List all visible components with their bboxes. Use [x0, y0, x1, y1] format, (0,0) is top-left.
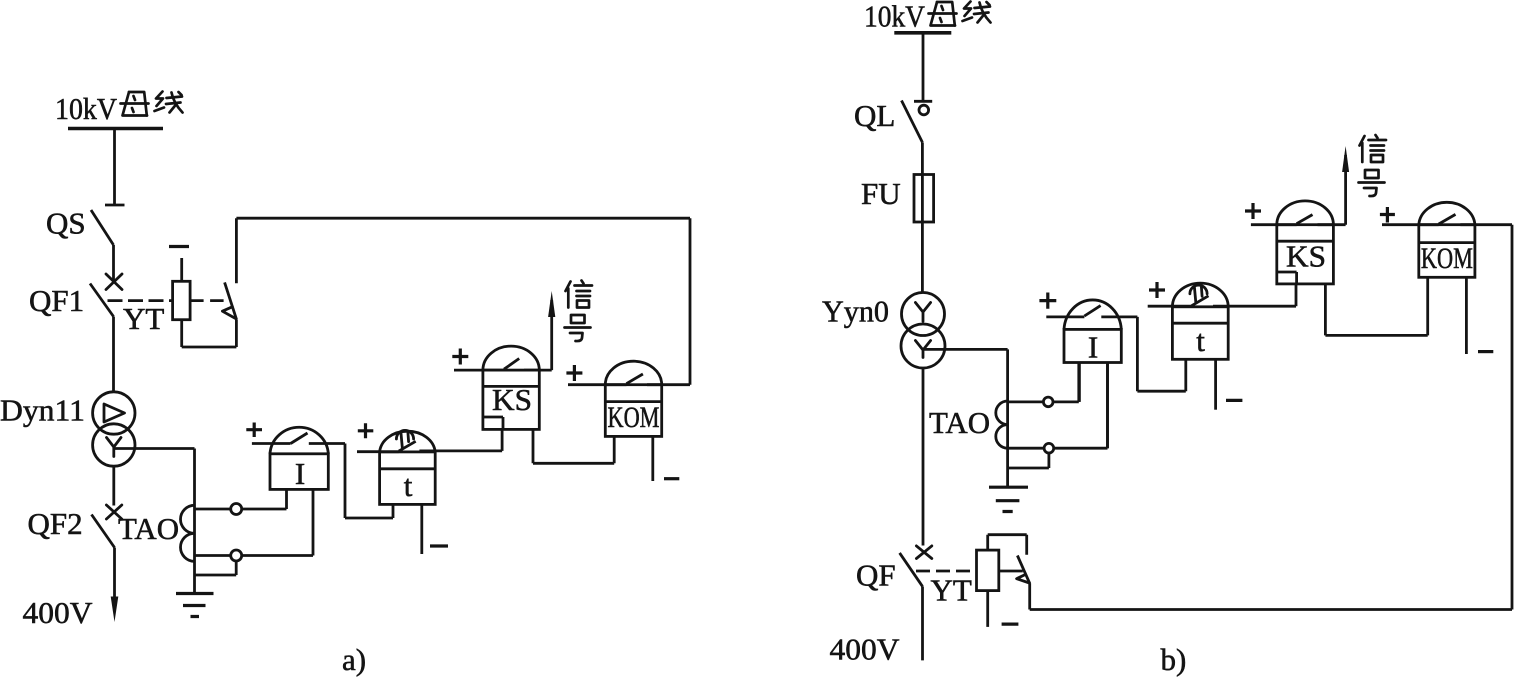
relay KS (a) notch — [483, 417, 503, 429]
relay t (b) divider — [1172, 322, 1228, 325]
svg-text:a): a) — [342, 642, 366, 677]
minus relay KOM (a) — [664, 477, 679, 480]
wire QS to QF1 — [112, 245, 115, 282]
relay I (b) box — [1064, 329, 1121, 362]
svg-text:t: t — [1196, 323, 1205, 358]
wire relay t to KS coil (b) — [1295, 284, 1298, 306]
wire TAO upper tap (b) — [1008, 400, 1044, 403]
relay KOM (b) bottom right terminal — [1465, 277, 1468, 354]
signal arrow head (a) — [548, 291, 555, 317]
svg-text:I: I — [295, 456, 305, 491]
QF1 aux contact blade — [225, 282, 237, 319]
dashed link QF to YT (b) — [916, 570, 977, 573]
wire relay I to relay t (a) — [345, 444, 393, 519]
wire transformer neutral to TAO — [114, 447, 195, 450]
plus sign relay t (b) — [1149, 282, 1165, 298]
signal arrow head (b) — [1342, 146, 1349, 172]
wire TAO lower tap (b) — [1008, 447, 1045, 450]
plus sign relay t (a) — [358, 423, 374, 438]
wire QL through fuse to transformer — [921, 142, 924, 292]
ground (a) — [176, 594, 214, 617]
transformer T2 primary wye symbol — [915, 303, 930, 322]
terminal circle lower (b) — [1044, 443, 1054, 453]
label 10kV busbar (b) — [864, 0, 991, 34]
QF aux contact blade (b) — [1017, 556, 1029, 584]
dashed link YT to aux contact — [190, 299, 229, 302]
QF1 aux contact fixed wire — [235, 218, 238, 283]
svg-text:FU: FU — [861, 176, 901, 211]
relay KOM (a) box — [605, 385, 661, 437]
relay KS (b) divider — [1277, 240, 1334, 243]
dashed link QF1 to YT — [108, 299, 173, 302]
relay t (a) contact blade — [399, 441, 416, 451]
relay KS (a) divider — [483, 385, 539, 388]
relay KS (a) contact blade — [504, 359, 519, 370]
disconnector QS fixed tick — [105, 204, 125, 207]
relay I (b) contact blade — [1084, 306, 1100, 316]
relay KOM (b) dome — [1419, 202, 1475, 224]
wire transformer to QF — [922, 368, 925, 546]
breaker QF blade — [900, 553, 923, 587]
relay t (a) dome — [380, 431, 436, 452]
wire upper terminal to relay I (b) — [1053, 363, 1079, 402]
plus sign relay KS (a) — [452, 349, 468, 365]
signal arrow stem (a) — [550, 300, 553, 370]
wire relay t to KS coil (a) — [501, 429, 504, 451]
relay t (a) bottom right terminal — [420, 504, 423, 554]
wire QF1 to transformer — [112, 317, 115, 393]
wire top loop to KOM (a) — [236, 218, 690, 385]
transformer T2 secondary wye symbol — [915, 341, 930, 358]
switch QL blade — [902, 101, 923, 143]
svg-text:QF: QF — [856, 558, 896, 593]
relay t (b) contact left wire — [1148, 305, 1192, 308]
trip coil YT rect — [173, 281, 191, 319]
relay t (a) divider — [380, 467, 436, 470]
relay KOM (b) contact fixed wire — [1460, 223, 1512, 226]
svg-text:YT: YT — [931, 573, 972, 608]
relay I (a) dome — [270, 427, 328, 454]
relay t (b) contact blade — [1192, 296, 1209, 306]
relay KOM (a) bottom right terminal — [651, 436, 654, 481]
relay KS (b) contact left wire — [1251, 223, 1297, 226]
transformer T2 primary circle — [902, 293, 945, 336]
ground (b) — [989, 487, 1028, 511]
switch QL terminal circle — [919, 105, 929, 115]
wire busbar to QL — [922, 33, 925, 102]
breaker QF X mark — [916, 546, 931, 559]
relay t (a) contact fixed wire — [419, 449, 502, 452]
relay KOM (a) divider — [605, 400, 661, 403]
link YT to aux contact (b) — [999, 570, 1023, 573]
svg-text:b): b) — [1161, 642, 1187, 677]
CT TAO winding arcs (b) — [996, 401, 1008, 448]
QF aux contact triangle (b) — [1017, 575, 1030, 583]
switch QL fixed tick — [914, 100, 932, 103]
transformer T1 secondary circle — [93, 424, 135, 466]
plus sign relay KS (b) — [1245, 203, 1261, 219]
transformer T2 secondary circle — [901, 324, 945, 368]
relay KS (a) box — [483, 370, 539, 429]
wire KS to KOM (b) — [1325, 277, 1427, 335]
transformer T1 delta symbol — [104, 404, 125, 422]
svg-text:QF2: QF2 — [28, 506, 83, 541]
signal arrow stem (b) — [1344, 155, 1347, 225]
minus relay t (b) — [1226, 399, 1242, 402]
svg-text:400V: 400V — [23, 595, 94, 630]
transformer T1 wye symbol — [107, 438, 122, 457]
wire TAO lower tap — [195, 554, 231, 557]
plus sign relay I (a) — [246, 423, 262, 438]
wire TAO vertical conductor — [193, 449, 196, 594]
QF1 aux contact triangle — [222, 307, 235, 319]
relay KOM (b) contact blade — [1439, 214, 1456, 224]
minus above YT coil — [169, 245, 189, 248]
relay I (b) contact left wire — [1046, 315, 1084, 318]
terminal circle upper (a) — [231, 504, 242, 515]
label 信号 (a) — [565, 281, 593, 342]
plus sign relay KOM (a) — [566, 365, 582, 381]
relay t (a) timer symbol — [396, 430, 413, 447]
svg-text:KOM: KOM — [1421, 242, 1473, 275]
relay KOM (b) box — [1419, 225, 1475, 278]
breaker QF2 X mark — [106, 505, 121, 519]
arrow 400V feeder (a) — [111, 597, 119, 623]
relay KOM (b) contact left wire — [1382, 223, 1439, 226]
relay I (b) bottom terminals — [1079, 363, 1107, 449]
label 10kV busbar (a) — [55, 91, 183, 126]
minus relay t (a) — [430, 544, 448, 547]
wire TAO upper tap — [195, 508, 231, 511]
relay KS (b) contact fixed wire — [1318, 223, 1346, 226]
svg-text:10kV: 10kV — [55, 91, 118, 126]
wire transformer to QF2 — [112, 466, 115, 506]
transformer T1 primary circle — [93, 392, 135, 434]
relay I (b) contact fixed wire — [1101, 315, 1137, 318]
CT TAO winding arcs — [181, 505, 195, 561]
relay t (b) bottom right terminal — [1214, 359, 1217, 409]
relay KS (b) contact blade — [1297, 215, 1313, 224]
terminal circle upper (b) — [1043, 397, 1053, 407]
disconnector QS blade — [91, 210, 114, 245]
svg-text:KOM: KOM — [608, 401, 660, 434]
svg-text:QS: QS — [46, 206, 86, 241]
svg-text:QL: QL — [854, 98, 895, 133]
svg-text:TAO: TAO — [929, 405, 990, 440]
wire QF2 to 400V feeder — [113, 548, 116, 602]
breaker QF1 X mark — [106, 274, 122, 290]
trip coil YT rect (b) — [977, 550, 999, 591]
wire lower terminal stub to earth conductor — [195, 561, 237, 575]
wire QF to 400V feeder — [921, 586, 924, 660]
relay KS (a) dome — [483, 346, 539, 370]
wire relay I to relay t (b) — [1137, 317, 1185, 391]
svg-text:10kV: 10kV — [864, 0, 926, 34]
wire YT top loop to aux contact (b) — [988, 535, 1027, 555]
wire upper terminal to relay I — [242, 489, 287, 509]
svg-text:I: I — [1088, 330, 1098, 365]
svg-text:Yyn0: Yyn0 — [822, 294, 889, 329]
relay KS (a) contact left wire — [454, 369, 504, 372]
wire KS to KOM (a) — [533, 429, 614, 463]
relay I (a) box — [270, 454, 328, 490]
wire lower terminal stub to earth conductor (b) — [1008, 453, 1049, 468]
relay I (b) dome — [1064, 300, 1121, 329]
plus sign relay I (b) — [1039, 293, 1056, 309]
wire aux contact to YT bottom — [182, 319, 237, 347]
relay t (b) timer symbol — [1190, 285, 1207, 302]
breaker QF1 blade — [90, 284, 114, 317]
svg-text:YT: YT — [123, 301, 164, 336]
svg-text:QF1: QF1 — [29, 283, 84, 318]
wire aux contact to KOM loop (b) — [1030, 225, 1512, 610]
svg-text:KS: KS — [492, 382, 532, 417]
wire transformer neutral to TAO (b) — [923, 349, 1008, 487]
minus YT (b) — [1002, 622, 1019, 625]
fuse FU rect — [914, 175, 934, 223]
relay I (a) contact fixed wire — [309, 442, 345, 445]
relay t (b) box — [1172, 307, 1228, 360]
relay t (a) contact left wire — [357, 450, 399, 453]
relay t (a) box — [380, 452, 436, 505]
minus relay KOM (b) — [1478, 350, 1493, 353]
svg-text:KS: KS — [1286, 239, 1326, 274]
label 信号 (b) — [1359, 135, 1387, 196]
wire busbar to QS — [113, 129, 116, 206]
svg-text:TAO: TAO — [118, 511, 179, 546]
plus sign relay KOM (b) — [1380, 207, 1395, 223]
relay t (b) dome — [1172, 283, 1228, 307]
wire minus to YT coil — [180, 258, 183, 281]
busbar (a) — [68, 127, 163, 131]
svg-text:Dyn11: Dyn11 — [0, 393, 85, 428]
wire lower terminal to relay I (b) — [1054, 363, 1108, 449]
relay I (a) contact blade — [291, 433, 308, 444]
breaker QF2 blade — [92, 515, 115, 548]
relay KOM (a) dome — [605, 361, 661, 385]
busbar (b) — [894, 31, 951, 35]
relay KS (b) box — [1277, 225, 1334, 284]
relay I (a) contact left wire — [252, 442, 291, 445]
terminal circle lower (a) — [231, 550, 242, 561]
relay KOM (b) divider — [1419, 241, 1475, 244]
relay KS (b) notch — [1277, 272, 1297, 284]
wire lower terminal to relay I — [242, 489, 313, 555]
wire YT bottom to minus (b) — [986, 591, 989, 627]
relay KOM (a) contact blade — [626, 374, 643, 384]
relay t (b) contact fixed wire — [1213, 305, 1296, 308]
relay KS (b) dome — [1277, 201, 1334, 225]
relay KS (a) contact fixed wire — [524, 369, 552, 372]
relay KOM (a) contact left wire — [568, 383, 626, 386]
relay KOM (a) contact fixed wire — [647, 383, 690, 386]
svg-text:400V: 400V — [830, 632, 901, 667]
svg-text:t: t — [404, 468, 413, 503]
